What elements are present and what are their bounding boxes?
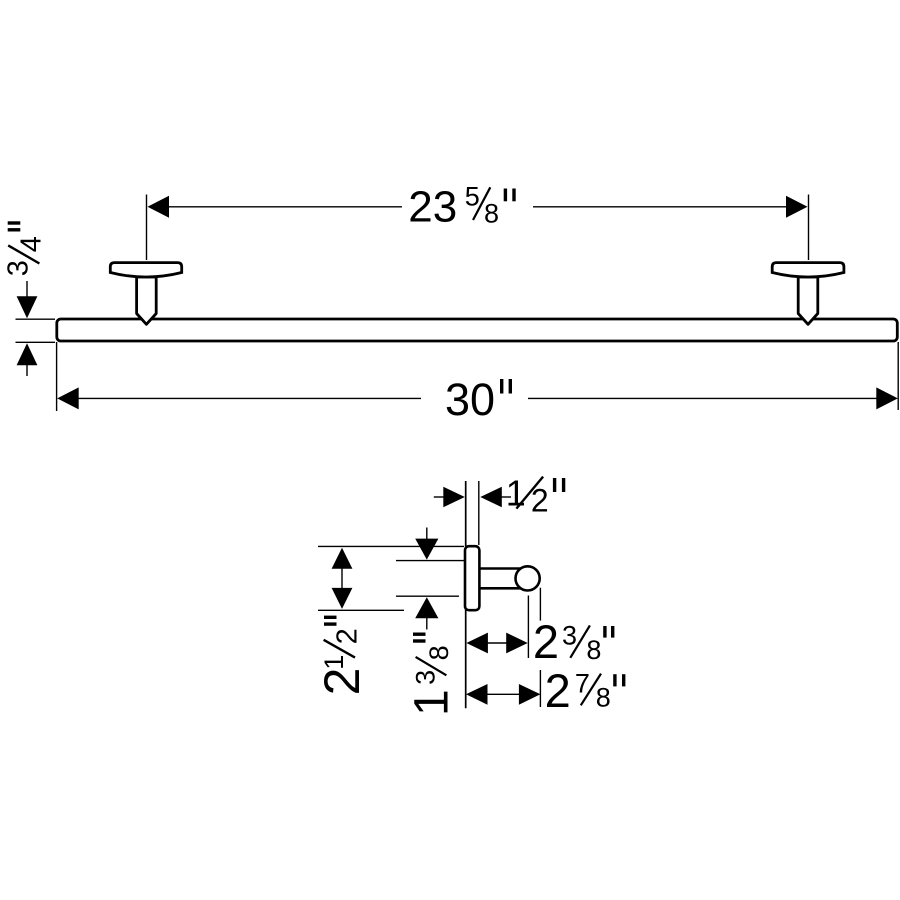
svg-text:8: 8 [596, 682, 611, 712]
dimension 30 extension line left [56, 342, 58, 411]
svg-text:2: 2 [533, 615, 559, 668]
right post stem [798, 277, 818, 324]
label 1 3/8 inch (rotated) [406, 634, 459, 716]
label 2 1/2 inch (rotated) [314, 617, 370, 695]
arrowhead 30 left [57, 387, 78, 409]
dimension 2 7/8 extension line lower [539, 670, 541, 707]
dimension 2 1/2 extension line top [318, 545, 464, 547]
hook stem bottom line [479, 587, 522, 590]
svg-text:30: 30 [445, 374, 495, 425]
label 1/2 inch [506, 473, 564, 519]
svg-text:2: 2 [531, 483, 549, 519]
hook stem (side view) fill [479, 567, 521, 589]
svg-text:3: 3 [410, 670, 440, 685]
dimension 2 3/8 extension line [527, 596, 529, 659]
left post stem [137, 277, 157, 324]
svg-text:23: 23 [408, 183, 457, 232]
dimension 2 7/8 line [487, 693, 520, 695]
dimension 1/2 right arrow [480, 487, 511, 508]
label 3/4 inch (rotated) [2, 223, 47, 276]
arrow 3/4 upper [17, 281, 38, 318]
arrowhead 2 3/8 right [506, 633, 528, 654]
wall line (side view) [465, 481, 467, 708]
arrowhead 23 5/8 right [786, 196, 808, 218]
dimension 1 3/8 top arrow [415, 528, 438, 560]
dimension 3/4 extension line top [16, 318, 56, 320]
svg-text:3: 3 [562, 621, 577, 651]
dimension 1/2 left arrow [434, 487, 465, 508]
dimension 2 7/8 extension line upper [539, 588, 541, 621]
hook ball [516, 566, 540, 590]
svg-text:1: 1 [319, 655, 349, 670]
dimension 2 1/2 extension line bottom [318, 609, 404, 611]
label 2 3/8 inch [533, 615, 613, 668]
svg-text:3: 3 [2, 260, 34, 276]
svg-text:2: 2 [545, 664, 571, 717]
dimension 30 line left segment [78, 397, 421, 399]
svg-text:2: 2 [331, 628, 363, 644]
svg-text:1: 1 [506, 473, 526, 514]
dimension 23 5/8 line left segment [167, 206, 402, 208]
arrowhead 30 right [876, 387, 898, 409]
dimension 23 5/8 extension line right [808, 195, 810, 261]
dimension 30 line right segment [528, 397, 877, 399]
dimension 1 3/8 extension line bottom [396, 595, 459, 597]
towel bar (front view) [57, 319, 898, 341]
label 23 5/8 inch [408, 182, 514, 232]
label 30 inch [445, 374, 510, 425]
dimension 2 3/8 line [488, 642, 507, 644]
svg-text:1: 1 [406, 689, 459, 716]
left post flange [110, 263, 181, 277]
dimension 23 5/8 line right segment [533, 206, 787, 208]
svg-text:4: 4 [16, 236, 48, 252]
dimension 3/4 extension line bottom [16, 341, 56, 343]
svg-text:8: 8 [586, 635, 601, 665]
label 2 7/8 inch [545, 664, 624, 717]
flange (side view) [465, 546, 479, 610]
svg-text:8: 8 [484, 198, 499, 228]
hook stem top line [479, 567, 522, 570]
svg-text:5: 5 [465, 182, 480, 212]
arrowhead 2 7/8 left [466, 684, 488, 705]
right post flange [772, 263, 844, 277]
svg-text:8: 8 [424, 645, 454, 660]
arrowhead 23 5/8 left [148, 196, 170, 218]
dimension 30 extension line right [897, 342, 899, 410]
svg-text:2: 2 [314, 668, 370, 696]
arrowhead 2 7/8 right [519, 684, 541, 705]
arrowhead 2 3/8 left [466, 633, 488, 654]
dimension 1/2 extension line right [478, 481, 480, 545]
arrow 3/4 lower [17, 343, 38, 376]
dimension 23 5/8 extension line left [146, 195, 148, 261]
dimension 2 1/2 arrows [332, 548, 353, 609]
dimension 1 3/8 bottom arrow [415, 597, 438, 629]
dimension 1 3/8 extension line top [396, 560, 464, 562]
